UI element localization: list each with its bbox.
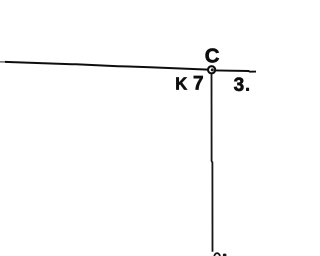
svg-text:K: K (175, 73, 187, 94)
partial node circle at bottom edge (214, 253, 220, 256)
partial glyph bar at bottom edge (223, 254, 227, 256)
wire: vertical segment from node C down to bottom (212, 74, 213, 252)
label period (after 3) (246, 88, 249, 91)
svg-text:C: C (205, 45, 220, 67)
node C inner dot (211, 68, 214, 71)
node C terminal circle (208, 66, 215, 73)
wire: right horizontal segment from node C to right edge (215, 70, 256, 71)
svg-text:7: 7 (193, 74, 204, 95)
wire: left horizontal segment entering from left edge to node C (0, 61, 6, 63)
svg-text:3: 3 (234, 75, 245, 96)
